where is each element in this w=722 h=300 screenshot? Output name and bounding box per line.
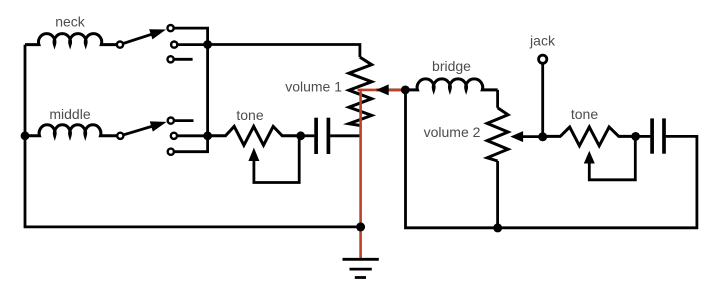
wire left rail and bottom-left bus [25, 45, 361, 227]
switch SW2 blade [124, 121, 167, 134]
svg-text:tone: tone [571, 106, 598, 122]
node F junction dot [631, 132, 640, 141]
node H junction dot ground [356, 222, 365, 231]
node D junction dot [401, 86, 410, 95]
potentiometer volume 2 wiper arrow [510, 131, 542, 142]
potentiometer tone 2 resistor body [543, 127, 636, 146]
svg-text:tone: tone [236, 107, 263, 123]
switch SW1 throw 3 open stub [168, 56, 193, 62]
capacitor C2 [652, 118, 664, 153]
pickup L2 middle [25, 125, 117, 136]
wire throw2 to node B [177, 134, 207, 137]
potentiometer volume 1 wiper wire [376, 89, 405, 92]
svg-text:jack: jack [529, 33, 556, 49]
pickup L3 bridge [406, 79, 498, 90]
capacitor C1 [316, 118, 328, 154]
wire capacitor C2 right loop [406, 90, 697, 228]
potentiometer volume 2 resistor body [487, 108, 508, 161]
wire volume2 bottom lead [496, 161, 499, 228]
node C junction dot [296, 131, 305, 140]
potentiometer volume 1 resistor body [349, 57, 372, 125]
wire throw3 up to node B [174, 136, 207, 152]
node E junction dot [538, 132, 547, 141]
switch SW2 throw 3 [168, 149, 174, 155]
switch SW1 throw 2 [171, 42, 177, 48]
wire vertical bus to middle switch [206, 45, 209, 136]
node rail-middle junction dot [21, 131, 30, 140]
node G junction dot volume2 bottom [493, 223, 502, 232]
switch SW2 pole terminal [117, 133, 123, 139]
switch SW1 throw 1 [168, 25, 174, 31]
potentiometer tone 1 wiper arrow [248, 139, 299, 183]
svg-text:bridge: bridge [432, 58, 471, 74]
wire capacitor C1 to ground line [330, 134, 361, 137]
wire throw2 to junction [178, 43, 208, 46]
wire node A to volume1 top [208, 45, 360, 58]
switch SW2 throw 1 open stub [168, 118, 194, 124]
pickup L1 neck [25, 34, 116, 45]
svg-text:neck: neck [55, 14, 86, 30]
wire node F to capacitor C2 [636, 135, 651, 138]
potentiometer volume 1 wiper arrow [376, 84, 389, 95]
svg-text:volume 2: volume 2 [424, 124, 481, 140]
wire throw1 to bus junction [174, 28, 208, 44]
wire bridge to volume2 top [496, 90, 499, 108]
switch SW2 throw 2 [171, 133, 177, 139]
wire red ground link [358, 89, 406, 259]
wire node C to capacitor C1 [301, 134, 315, 137]
svg-text:middle: middle [49, 106, 90, 122]
potentiometer tone 1 resistor body [208, 126, 301, 145]
jack J1 terminal circle [539, 55, 547, 63]
node B junction dot [203, 131, 212, 140]
svg-text:volume 1: volume 1 [285, 79, 342, 95]
ground symbol [343, 259, 379, 277]
switch SW1 blade [123, 29, 166, 43]
wire jack to node E [541, 64, 544, 136]
node A junction dot [203, 40, 212, 49]
switch SW1 pole terminal [117, 42, 123, 48]
potentiometer tone 2 wiper arrow [584, 139, 636, 180]
